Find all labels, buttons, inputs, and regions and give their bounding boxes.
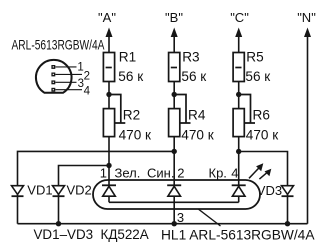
wire R1 to junction A [108, 82, 110, 109]
HL1 green LED chip (pin 1) [102, 185, 116, 202]
wire R6 to HL1 pin 4 [238, 137, 240, 186]
svg-text:2: 2 [177, 165, 184, 180]
svg-text:R1: R1 [119, 50, 136, 65]
diode VD3 [282, 186, 294, 197]
svg-text:ARL-5613RGBW/4A: ARL-5613RGBW/4A [12, 37, 106, 52]
svg-text:56 к: 56 к [245, 69, 271, 84]
node C / VD3 junction [236, 149, 241, 154]
resistor R6 (trimmer, rheostat connection) [233, 95, 255, 137]
HL1 inner common wire [109, 201, 239, 203]
HL1 red LED chip (pin 4) [232, 185, 246, 202]
svg-text:VD1–VD3 КД522А: VD1–VD3 КД522А [34, 227, 150, 242]
svg-text:470 к: 470 к [246, 128, 279, 143]
wire R2 to HL1 pin 1 [108, 137, 110, 186]
resistor R1 [103, 53, 114, 82]
light emission arrows [249, 163, 271, 179]
svg-text:R3: R3 [182, 50, 199, 65]
svg-text:2: 2 [84, 70, 90, 82]
svg-text:HL1 ARL-5613RGBW/4A: HL1 ARL-5613RGBW/4A [161, 228, 315, 243]
svg-text:R6: R6 [253, 108, 270, 123]
node A / VD2 junction [106, 163, 111, 168]
svg-text:4: 4 [84, 86, 91, 98]
wire R3 to junction B [173, 82, 175, 109]
svg-text:56 к: 56 к [181, 69, 207, 84]
resistor R4 (trimmer, rheostat connection) [169, 95, 191, 137]
svg-text:1: 1 [100, 165, 107, 180]
HL1 blue LED chip (pin 2) [167, 185, 181, 202]
node B / VD1 junction [172, 149, 177, 154]
wire N down to bottom bus [307, 35, 309, 224]
bottom bus wire [18, 223, 308, 225]
svg-text:"N": "N" [297, 10, 316, 25]
pin 2 leader line [55, 73, 82, 75]
node pin3 / bus [172, 221, 177, 226]
arrow B [171, 28, 178, 38]
svg-text:4: 4 [231, 165, 238, 180]
wire B to R3 [173, 35, 175, 53]
svg-text:470 к: 470 к [181, 128, 214, 143]
svg-text:R5: R5 [246, 50, 263, 65]
arrow A [106, 28, 113, 38]
pin 1 leader line [55, 66, 76, 68]
svg-text:Зел.: Зел. [115, 165, 141, 180]
callout line to HL1 [199, 209, 221, 226]
svg-text:"В": "В" [165, 10, 183, 25]
node VD2 / bus [56, 221, 61, 226]
wire C to R5 [238, 35, 240, 53]
node junction B [172, 92, 177, 97]
svg-text:3: 3 [177, 210, 184, 225]
svg-text:R4: R4 [188, 108, 206, 123]
LED assembly HL1 outline [93, 180, 260, 209]
wire VD3 branch (to node C) [239, 152, 288, 224]
svg-text:"А": "А" [98, 10, 116, 25]
pin 4 leader line [55, 89, 82, 91]
resistor R2 (trimmer, rheostat connection) [103, 95, 125, 137]
svg-text:VD1: VD1 [27, 183, 52, 198]
svg-text:470 к: 470 к [119, 128, 152, 143]
node junction C [236, 92, 241, 97]
node VD3 / bus [285, 221, 290, 226]
package outline ARL-5613RGBW/4A (top view) [36, 60, 72, 93]
svg-text:VD2: VD2 [67, 183, 92, 198]
diode VD2 [53, 186, 65, 197]
diode VD1 [12, 186, 24, 197]
svg-text:56 к: 56 к [118, 69, 144, 84]
node junction A [106, 92, 111, 97]
wire R5 to junction C [238, 82, 240, 109]
svg-text:R2: R2 [123, 108, 140, 123]
svg-text:"С": "С" [230, 10, 249, 25]
svg-text:Кр.: Кр. [209, 165, 227, 180]
wire A to R1 [108, 35, 110, 53]
wire VD2 branch (to node A) [59, 166, 110, 224]
wire pin 3 to bottom bus [173, 202, 175, 223]
arrow N [304, 28, 311, 38]
svg-text:Син.: Син. [147, 165, 174, 180]
resistor R5 [233, 53, 244, 82]
package pin squares 1-4 [51, 65, 55, 92]
resistor R3 [169, 53, 180, 82]
arrow C [235, 28, 242, 38]
wire VD1 top rail (to junction B) [18, 151, 175, 223]
pin 3 leader line [55, 81, 76, 83]
wire R4 to HL1 pin 2 [173, 137, 175, 186]
